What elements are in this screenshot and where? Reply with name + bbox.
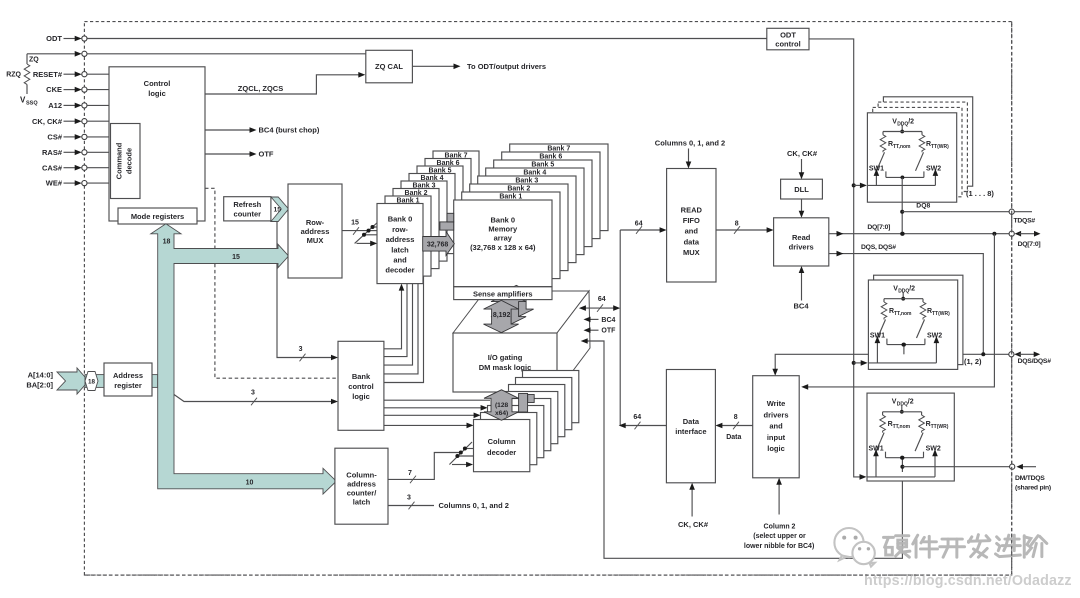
svg-text:Command: Command (115, 142, 124, 179)
svg-text:A12: A12 (48, 101, 62, 110)
fan-in motif column decoder (449, 442, 472, 465)
svg-text:DQ8: DQ8 (916, 202, 930, 209)
column-address counter/latch box (335, 448, 388, 524)
bus 32,768 grey arrow (423, 232, 455, 256)
svg-text:DM/TDQS: DM/TDQS (1015, 475, 1045, 482)
RTT2 DQS bottom rail wire (886, 339, 888, 345)
wire ODT to ODT control (87, 38, 767, 40)
bus (128 x64) grey arrow fragments (519, 394, 528, 413)
svg-text:ZQCL, ZQCS: ZQCL, ZQCS (238, 84, 283, 93)
svg-text:64: 64 (635, 220, 643, 227)
svg-text:drivers: drivers (763, 410, 788, 419)
svg-text:DLL: DLL (794, 185, 809, 194)
command decode box (111, 124, 141, 199)
bus 64 I/O gating bidirectional (583, 307, 614, 309)
RTT3 DM switch SW1 blade (876, 433, 884, 452)
wire RTT3 tap to DM pin line (crosses inside box) (901, 458, 903, 472)
svg-text:3: 3 (407, 495, 411, 502)
svg-text:ODT: ODT (780, 31, 796, 40)
svg-text:and: and (393, 256, 407, 265)
svg-text:Bank: Bank (352, 372, 371, 381)
RTT1 DQ resistor RTT(WR) (921, 132, 923, 135)
DLL box (781, 179, 823, 199)
svg-text:DDQ: DDQ (897, 402, 908, 408)
svg-text:Read: Read (792, 233, 811, 242)
mode registers box (118, 208, 197, 224)
column decoder stack banks 1-7 (523, 371, 579, 423)
dashed wire control logic to bank control (205, 188, 338, 378)
bus 64 to data interface (625, 425, 667, 427)
refresh counter box (224, 197, 271, 221)
svg-text:OTF: OTF (601, 328, 616, 335)
svg-text:lower nibble for BC4): lower nibble for BC4) (744, 543, 814, 550)
svg-text:decoder: decoder (385, 266, 414, 275)
svg-text:decoder: decoder (487, 448, 516, 457)
svg-text:8: 8 (735, 220, 739, 227)
svg-text:DDQ: DDQ (897, 121, 908, 127)
svg-text:SW2: SW2 (926, 446, 941, 453)
pin DQS/DQS# (1009, 352, 1014, 357)
write drivers and input logic box (753, 376, 800, 478)
svg-text:SSQ: SSQ (26, 101, 38, 107)
svg-text:FIFO: FIFO (683, 216, 700, 225)
bus 7 column-address to column decoder fan (388, 453, 461, 480)
bus 8 Data write drivers to data interface (721, 425, 753, 427)
I/O gating DM mask logic 3D box (453, 291, 589, 333)
wire BC4 (burst chop) output (205, 129, 250, 131)
bank 1-7 row-address latch stack (433, 151, 479, 231)
wire ZQCL,ZQCS control logic to ZQ CAL (205, 75, 359, 94)
svg-text:Mode registers: Mode registers (131, 212, 184, 221)
bus 32,768 row latch to memory (grey arrow fragments) (440, 222, 454, 230)
wire write data from DQ pin to write drivers (804, 234, 995, 387)
wire TDQS# pin line (902, 211, 1032, 213)
svg-text:and: and (769, 422, 783, 431)
svg-text:64: 64 (598, 296, 606, 303)
bus refresh counter 15 arrow (271, 197, 289, 222)
bus (128 x64) grey double arrow (484, 390, 519, 421)
svg-text:latch: latch (391, 245, 409, 254)
svg-text:Control: Control (144, 79, 171, 88)
svg-text:BA[2:0]: BA[2:0] (26, 381, 53, 390)
bank 0 row-address latch and decoder box (377, 204, 423, 284)
svg-text:Bank 0: Bank 0 (388, 215, 413, 224)
svg-text:8: 8 (734, 414, 738, 421)
svg-text:Bank 0: Bank 0 (490, 215, 515, 224)
svg-text:BC4 (burst chop): BC4 (burst chop) (259, 126, 320, 135)
RTT1 DQ resistor RTT,nom (882, 132, 884, 135)
svg-text:(32,768 x 128 x 64): (32,768 x 128 x 64) (470, 243, 536, 252)
RTT3 DM top rail wire (883, 411, 922, 413)
sense amplifiers bar (454, 287, 552, 300)
read drivers box (774, 218, 829, 266)
svg-text:(1 . . . 8): (1 . . . 8) (966, 189, 994, 198)
wire RTT2 tap to DQS pin line (903, 345, 905, 355)
node 18-bit crossing marker on boundary (85, 372, 98, 391)
wire RTT1 tap to DQ8/TDQS line (901, 177, 903, 233)
bank 1-7 memory array stack (510, 144, 608, 231)
svg-text:control: control (348, 382, 373, 391)
RTT3 DM VDDQ/2 stub and node (901, 406, 903, 412)
svg-text:To ODT/output drivers: To ODT/output drivers (467, 62, 546, 71)
svg-text:counter: counter (234, 210, 262, 219)
svg-text:interface: interface (675, 427, 706, 436)
svg-text:Write: Write (767, 399, 786, 408)
pin ZQ (75, 51, 82, 57)
svg-text:CAS#: CAS# (42, 163, 63, 172)
bus 8 READ FIFO to read drivers (716, 229, 768, 231)
wire DM path into I/O gating from DM/TDQS pin (586, 341, 902, 558)
svg-text:CK, CK#: CK, CK# (678, 520, 709, 529)
svg-text:/2: /2 (908, 118, 914, 125)
svg-text:10: 10 (246, 479, 254, 486)
svg-text:15: 15 (274, 207, 282, 214)
svg-text:address: address (347, 480, 376, 489)
svg-text:CK, CK#: CK, CK# (32, 117, 63, 126)
RTT network DM/TDQS box (867, 393, 954, 481)
svg-text:Row-: Row- (306, 218, 325, 227)
RTT2 DQS VDDQ/2 stub and node (902, 293, 904, 299)
svg-text:logic: logic (148, 89, 166, 98)
svg-text:DQS, DQS#: DQS, DQS# (861, 244, 896, 251)
pin DQ[7:0] (1009, 231, 1014, 236)
RTT3 DM resistor RTT(WR) (921, 412, 923, 415)
svg-text:DQ[7:0]: DQ[7:0] (867, 224, 890, 231)
svg-text:SW2: SW2 (927, 333, 942, 340)
bus address register teal trunk with 18/15/10 branches (151, 224, 336, 494)
svg-text:Data: Data (726, 434, 741, 441)
svg-text:8,192: 8,192 (493, 312, 511, 319)
svg-text:(shared pin): (shared pin) (1015, 484, 1051, 491)
svg-text:RAS#: RAS# (42, 148, 63, 157)
svg-text:array: array (494, 234, 513, 243)
RTT1 DQ bottom rail wire (885, 171, 887, 177)
svg-text:decode: decode (125, 148, 134, 174)
svg-text:Column 2: Column 2 (764, 524, 796, 531)
bus 15 row-address MUX to bank latches (fan) (342, 230, 367, 232)
RTT1 DQ switch control feed wire and SW arrows (867, 184, 935, 186)
svg-text:Column: Column (488, 437, 516, 446)
wire to ODT/output drivers (412, 65, 454, 67)
wire Columns 0,1,2 output (388, 505, 434, 507)
RTT2 DQS switch SW1 blade (878, 320, 886, 339)
svg-text:control: control (775, 40, 800, 49)
svg-text:RESET#: RESET# (33, 70, 63, 79)
wire row-address 3-bus to bank control logic (277, 222, 332, 358)
wires bank control to row latches (384, 289, 402, 349)
RTT2 DQS top rail wire (884, 298, 923, 300)
svg-text:CK, CK#: CK, CK# (787, 149, 818, 158)
svg-text:(1, 2): (1, 2) (964, 357, 982, 366)
svg-text:input: input (767, 433, 786, 442)
svg-text:TT(WR): TT(WR) (931, 144, 949, 150)
svg-text:/2: /2 (908, 399, 914, 406)
control logic box U-CTRL (109, 67, 205, 221)
svg-text:32,768: 32,768 (427, 242, 449, 249)
RTT2 DQS switch SW2 blade (917, 320, 925, 339)
svg-text:OTF: OTF (259, 150, 274, 159)
chip boundary dashed box (84, 22, 1011, 576)
svg-text:18: 18 (88, 379, 96, 386)
wires bank control to column decoders (384, 399, 490, 401)
RTT3 DM bottom rail wire (885, 452, 887, 458)
svg-text:(select upper or: (select upper or (753, 533, 806, 540)
svg-text:BC4: BC4 (793, 302, 809, 311)
row-address MUX box (288, 184, 342, 278)
svg-text:WE#: WE# (46, 179, 63, 188)
bus A/BA input arrow (teal) (57, 368, 89, 394)
RTT network DQ stack boxes (1...8) (883, 97, 972, 186)
svg-text:latch: latch (353, 498, 371, 507)
svg-text:TDQS#: TDQS# (1014, 217, 1036, 224)
bank 0 memory array box (454, 200, 552, 287)
svg-text:DQS/DQS#: DQS/DQS# (1018, 358, 1052, 365)
svg-text:Data: Data (683, 417, 700, 426)
svg-text:SW2: SW2 (926, 165, 941, 172)
svg-text:DDQ: DDQ (898, 289, 909, 295)
svg-text:ZQ CAL: ZQ CAL (375, 62, 403, 71)
svg-text:(128: (128 (495, 402, 509, 409)
address register box (104, 363, 152, 396)
svg-text:TT,nom: TT,nom (894, 311, 912, 317)
svg-text:MUX: MUX (683, 248, 700, 257)
wire DQS,DQS# read drivers to pin line (829, 254, 984, 355)
wire DLL to read drivers (801, 199, 803, 213)
svg-text:logic: logic (352, 392, 370, 401)
svg-text:ZQ: ZQ (29, 57, 39, 64)
svg-text:TT(WR): TT(WR) (931, 424, 949, 430)
svg-text:3: 3 (299, 346, 303, 353)
svg-text:Memory: Memory (488, 225, 518, 234)
wire column 3-bus address register to bank control (174, 395, 332, 402)
column decoder box bank 0 (474, 420, 530, 472)
svg-text:CS#: CS# (47, 133, 62, 142)
bus 8,192 grey double arrow (484, 300, 519, 332)
svg-text:address: address (301, 227, 330, 236)
RTT2 DQS switch control feed wire and SW arrows (868, 362, 936, 364)
svg-text:Columns 0, 1, and 2: Columns 0, 1, and 2 (439, 501, 509, 510)
svg-text:Address: Address (113, 371, 143, 380)
watermark wechat icon (834, 528, 874, 567)
svg-text:TT,nom: TT,nom (893, 424, 911, 430)
wire ZQ to ZQ CAL (87, 53, 366, 55)
svg-text:7: 7 (408, 470, 412, 477)
svg-text:TT(WR): TT(WR) (932, 311, 950, 317)
svg-text:Columns 0, 1, and 2: Columns 0, 1, and 2 (655, 138, 725, 147)
RTT2 DQS resistor RTT,nom (883, 299, 885, 302)
svg-text:15: 15 (232, 254, 240, 261)
READ FIFO and data MUX box (667, 169, 716, 283)
chip boundary dashed overlay (84, 574, 1011, 576)
svg-text:x64): x64) (495, 410, 508, 417)
svg-text:A[14:0]: A[14:0] (28, 370, 54, 379)
svg-text:row-: row- (392, 225, 408, 234)
node ZQ / resistor RZQ to VSSQ (27, 53, 75, 55)
data interface box (666, 370, 715, 483)
svg-text:address: address (386, 235, 415, 244)
bus 8,192 replica arrows (499, 285, 534, 317)
svg-text:DQ[7:0]: DQ[7:0] (1018, 241, 1041, 248)
svg-text:drivers: drivers (789, 242, 814, 251)
wire DQS pin line to write drivers input (775, 354, 1012, 370)
svg-text:BC4: BC4 (601, 317, 615, 324)
wire BC4 into I/O gating (589, 318, 599, 320)
RTT1 DQ VDDQ/2 stub and node (901, 125, 903, 131)
pin DM/TDQS (902, 466, 1009, 468)
RTT1 DQ switch SW2 blade (916, 152, 924, 171)
svg-text:Refresh: Refresh (233, 200, 261, 209)
svg-text:TT,nom: TT,nom (893, 144, 911, 150)
RTT1 DQ switch SW1 blade (877, 152, 885, 171)
svg-text:register: register (114, 381, 142, 390)
svg-text:and: and (685, 227, 699, 236)
svg-text:64: 64 (633, 414, 641, 421)
bus 64 to READ FIFO (620, 229, 660, 231)
wire OTF output (205, 153, 250, 155)
RTT3 DM switch control feed wire and SW arrows (867, 476, 935, 478)
wire OTF into I/O gating (589, 329, 599, 331)
watermark text 硬件开发进阶 (stroke approximation) (884, 536, 910, 557)
svg-text:data: data (684, 237, 700, 246)
bus 64 vertical trunk (619, 230, 621, 426)
RTT network DQS stack boxes (1,2) (874, 275, 963, 364)
svg-text:15: 15 (351, 219, 359, 226)
RTT1 DQ top rail wire (883, 131, 922, 133)
svg-text:/2: /2 (909, 286, 915, 293)
RTT3 DM resistor RTT,nom (882, 412, 884, 415)
RTT3 DM switch SW2 blade (915, 433, 923, 452)
svg-text:MUX: MUX (307, 236, 324, 245)
svg-text:READ: READ (681, 205, 703, 214)
svg-text:CKE: CKE (46, 85, 62, 94)
wire ODT control to RTT switches (809, 39, 860, 477)
svg-text:Sense amplifiers: Sense amplifiers (473, 289, 533, 298)
svg-text:18: 18 (163, 239, 171, 246)
svg-text:I/O gating: I/O gating (488, 353, 523, 362)
svg-text:ODT: ODT (46, 34, 62, 43)
svg-text:RZQ: RZQ (6, 72, 21, 79)
svg-text:https://blog.csdn.net/Odadazz: https://blog.csdn.net/Odadazz (864, 573, 1072, 589)
svg-text:3: 3 (251, 390, 255, 397)
svg-text:logic: logic (767, 444, 785, 453)
svg-text:Column-: Column- (346, 471, 377, 480)
wire DQ[7:0] read drivers to pin (829, 233, 1012, 235)
ZQ CAL box (366, 50, 413, 83)
bank control logic box (338, 341, 384, 430)
ODT control box (767, 28, 809, 50)
svg-text:counter/: counter/ (347, 489, 378, 498)
RTT2 DQS resistor RTT(WR) (922, 299, 924, 302)
